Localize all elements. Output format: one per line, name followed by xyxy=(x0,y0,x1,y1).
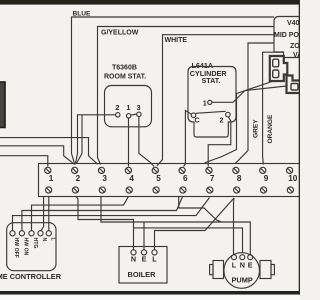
terminal 1 upper screw xyxy=(45,167,51,173)
svg-text:C: C xyxy=(195,115,200,124)
boiler terminal N xyxy=(131,250,136,255)
svg-text:STAT.: STAT. xyxy=(202,76,221,85)
svg-text:2: 2 xyxy=(115,103,119,112)
room stat terminal 1 xyxy=(126,114,130,118)
time controller box xyxy=(7,223,56,271)
svg-text:HW ON: HW ON xyxy=(22,238,28,256)
svg-text:PUMP: PUMP xyxy=(232,276,253,285)
svg-text:6: 6 xyxy=(183,174,188,183)
svg-text:V4073A: V4073A xyxy=(287,20,300,27)
room stat terminal 3 xyxy=(137,112,141,116)
time controller terminal HW ON xyxy=(19,231,24,236)
plug hole 1 xyxy=(273,59,279,67)
zone valve label box V4073A xyxy=(274,17,300,58)
room stat terminal 2 xyxy=(116,113,120,117)
boiler terminal E xyxy=(141,250,146,255)
terminal 7 upper screw xyxy=(206,167,212,173)
wire N run: terminal 2 to boiler N and pump N xyxy=(76,197,134,250)
time controller terminal HW OFF xyxy=(10,231,15,236)
wire valve ORANGE to terminal 9 xyxy=(263,52,284,164)
cylinder stat switch blade xyxy=(196,111,226,113)
svg-text:1: 1 xyxy=(49,174,54,183)
svg-text:T6360B: T6360B xyxy=(112,65,137,72)
wire terminal 8 to pump L xyxy=(233,198,236,255)
boiler terminal L xyxy=(152,250,157,255)
terminal 1 lower screw xyxy=(46,187,52,193)
pump right flange xyxy=(260,261,271,279)
plug hole 3 xyxy=(291,84,298,91)
terminal 9 lower screw xyxy=(261,187,267,193)
pump body circle xyxy=(224,253,260,289)
terminal 6 lower screw xyxy=(180,187,186,193)
cylinder stat terminal 2 xyxy=(226,112,231,117)
wire valve GREY to terminal 8 xyxy=(235,43,274,164)
svg-text:N: N xyxy=(41,238,47,242)
wire branch to pump N xyxy=(134,228,243,255)
svg-text:8: 8 xyxy=(237,174,242,183)
wire room stat 2 to terminal 2 xyxy=(75,115,115,165)
boiler box xyxy=(119,247,167,284)
wire cyl stat 2 to terminal 7 xyxy=(208,117,231,167)
terminal 10 lower screw xyxy=(287,187,293,193)
svg-text:E: E xyxy=(248,261,253,270)
pump right tab xyxy=(271,265,274,275)
svg-text:BOILER: BOILER xyxy=(128,270,157,279)
wire TC HTG to terminal 4 xyxy=(32,197,129,231)
svg-text:G/YELLOW: G/YELLOW xyxy=(101,30,139,37)
wire G/YELLOW xyxy=(98,27,275,165)
room stat switch blade xyxy=(131,114,137,115)
cylinder stat body xyxy=(188,67,236,138)
svg-text:N: N xyxy=(240,261,245,270)
svg-text:BLUE: BLUE xyxy=(73,11,92,18)
terminal 3 lower screw xyxy=(99,187,105,193)
zone valve plug lower xyxy=(287,76,301,94)
svg-text:3: 3 xyxy=(137,103,141,112)
pump terminal L xyxy=(232,255,237,260)
svg-text:ZONE: ZONE xyxy=(290,43,300,50)
wire TC L to terminal 1 xyxy=(48,197,50,231)
pump terminal E xyxy=(248,255,253,260)
svg-text:7: 7 xyxy=(210,174,215,183)
terminal 8 upper screw xyxy=(233,167,239,173)
svg-text:9: 9 xyxy=(264,174,269,183)
white margin below bottom border xyxy=(0,295,300,300)
border frame right xyxy=(299,0,300,300)
plug hole 2 xyxy=(273,70,279,78)
svg-text:1: 1 xyxy=(126,103,130,112)
wire supply N to terminal 3 xyxy=(0,138,98,165)
terminal 8 lower screw xyxy=(234,187,240,193)
svg-text:L: L xyxy=(232,261,237,270)
wire valve to terminal 7 xyxy=(205,82,273,164)
wire branch into terminal 2 xyxy=(76,115,82,164)
wire branch to boiler E xyxy=(143,222,145,250)
zone valve plug upper xyxy=(270,56,288,81)
svg-text:WHITE: WHITE xyxy=(165,37,188,44)
wire supply to terminal 2 xyxy=(0,146,75,165)
svg-text:E: E xyxy=(142,255,147,264)
wire TC N from junction box xyxy=(41,197,44,231)
cylinder stat terminal 1 xyxy=(208,100,212,104)
wire terminal 6 run xyxy=(179,197,221,222)
wire E run: terminal 3 to boiler E and pump E xyxy=(101,197,250,255)
wire TC HW OFF to terminal 7 xyxy=(13,198,210,231)
svg-text:3: 3 xyxy=(102,174,107,183)
svg-text:N: N xyxy=(131,255,136,264)
terminal 5 upper screw xyxy=(152,167,158,173)
svg-text:HTG: HTG xyxy=(32,238,38,249)
svg-text:2: 2 xyxy=(76,174,81,183)
terminal 2 lower screw xyxy=(72,187,78,193)
svg-text:GREY: GREY xyxy=(253,119,260,138)
wire cyl stat 1 to valve grey (via plug) xyxy=(212,86,287,102)
room stat box U-stat xyxy=(105,86,152,127)
terminal 7 lower screw xyxy=(207,187,213,193)
svg-text:4: 4 xyxy=(129,174,134,183)
terminal 6 upper screw xyxy=(179,167,185,173)
border frame top xyxy=(0,0,300,5)
supply box (cut off at left edge) xyxy=(0,82,5,128)
wire cyl stat C to terminal 6 xyxy=(184,111,192,167)
svg-text:5: 5 xyxy=(156,174,161,183)
wire BLUE vertical+horizontal xyxy=(72,17,275,165)
svg-text:MID POSITION: MID POSITION xyxy=(274,32,300,39)
svg-text:TIME CONTROLLER: TIME CONTROLLER xyxy=(0,272,62,281)
junction box terminal strip xyxy=(39,164,304,197)
svg-text:ROOM STAT.: ROOM STAT. xyxy=(104,74,146,81)
terminal strip screws and numbers xyxy=(45,167,298,193)
wire boiler L to terminal 8 xyxy=(155,198,235,250)
wire room stat 1 to terminal 4 xyxy=(128,118,130,167)
pump left tab xyxy=(210,265,213,275)
wire supply L to terminal 1 xyxy=(0,156,48,167)
pump terminal N xyxy=(240,255,245,260)
svg-text:10: 10 xyxy=(288,174,298,183)
cylinder stat terminal C xyxy=(191,113,196,118)
terminal 2 upper screw xyxy=(72,167,78,173)
svg-text:ORANGE: ORANGE xyxy=(267,114,274,144)
pump left flange xyxy=(213,261,224,279)
terminal 4 upper screw xyxy=(125,167,131,173)
time controller terminal HTG xyxy=(29,231,34,236)
time controller terminal N xyxy=(38,231,43,236)
svg-text:2: 2 xyxy=(220,115,224,124)
terminal 3 upper screw xyxy=(98,167,104,173)
border frame bottom xyxy=(0,291,300,295)
terminal 5 lower screw xyxy=(153,187,159,193)
time controller terminal L xyxy=(46,231,51,236)
wire TC HW ON to terminal 6 xyxy=(22,197,183,231)
terminal 9 upper screw xyxy=(260,167,266,173)
svg-text:1: 1 xyxy=(203,99,207,108)
terminal 4 lower screw xyxy=(126,187,132,193)
wire WHITE xyxy=(157,35,274,166)
svg-text:L: L xyxy=(152,255,157,264)
wire room stat 3 to terminal 5 xyxy=(139,117,154,167)
svg-text:HW OFF: HW OFF xyxy=(13,238,19,258)
terminal 10 upper screw xyxy=(287,167,293,173)
